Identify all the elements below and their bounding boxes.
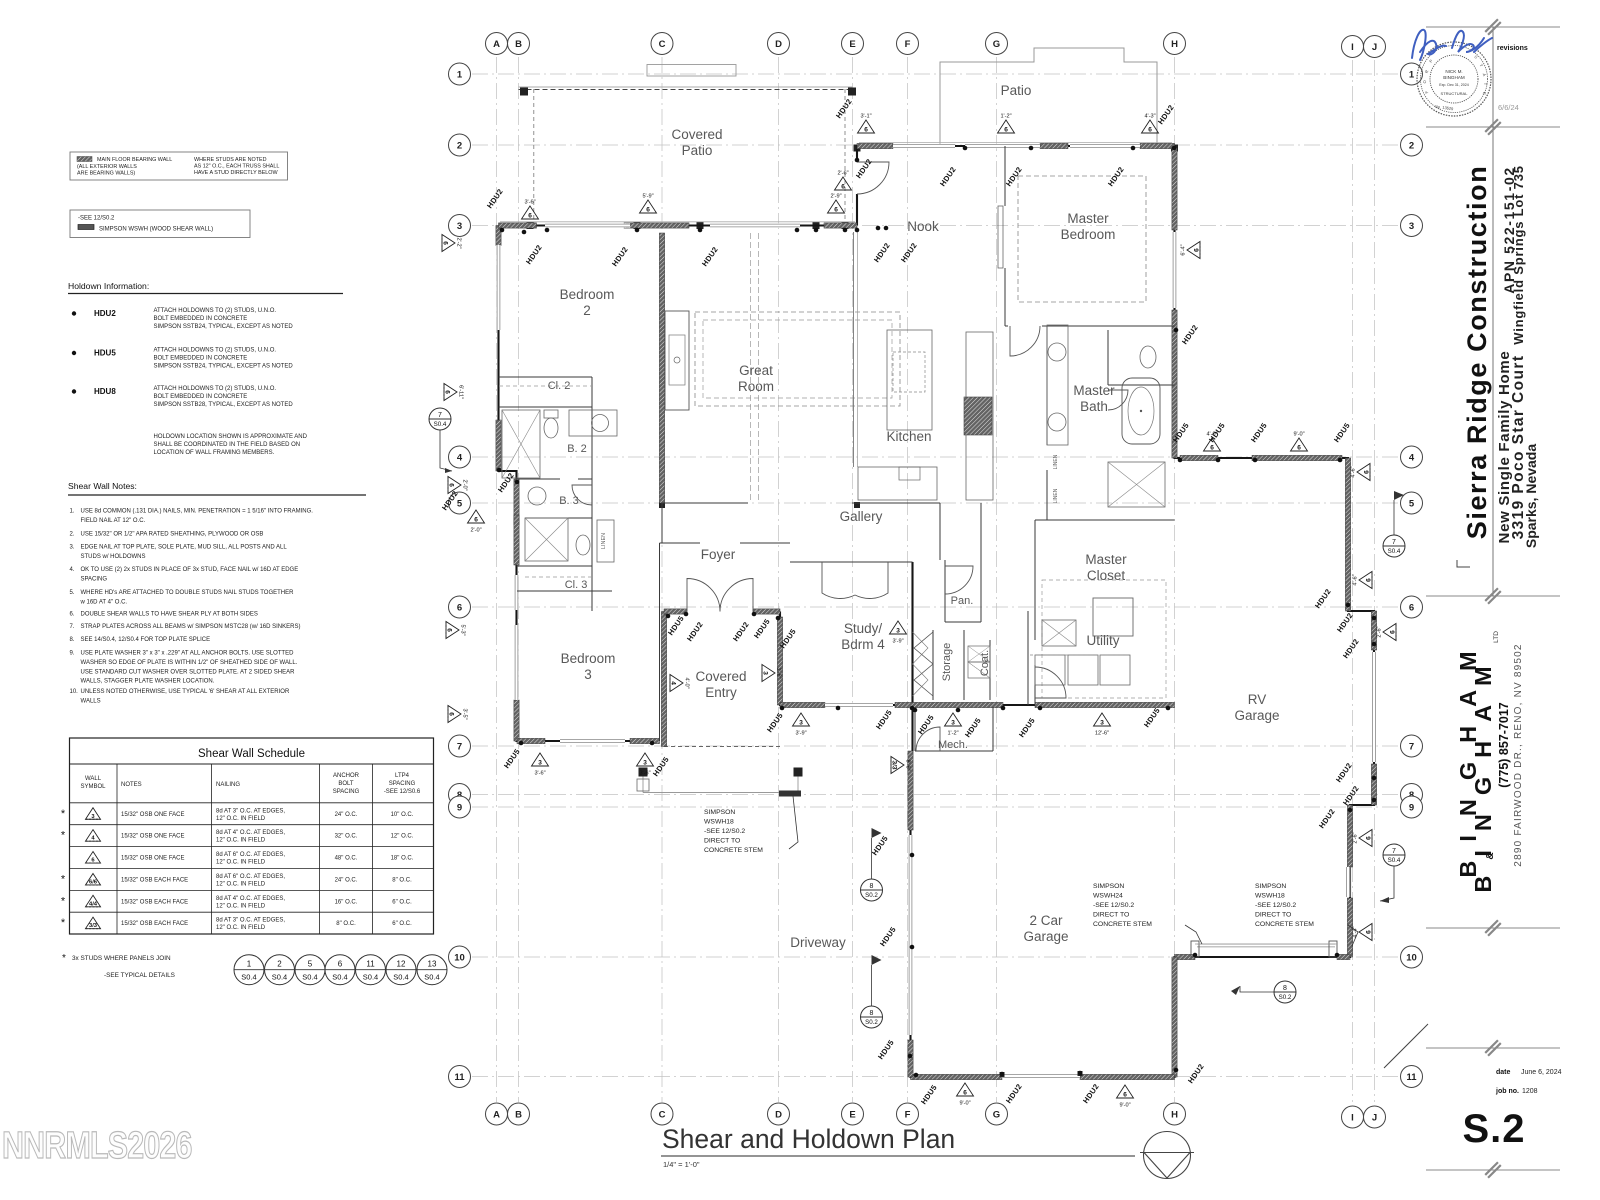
legend box bearing wall	[70, 152, 288, 180]
svg-text:D: D	[775, 39, 782, 50]
svg-text:CONCRETE STEM: CONCRETE STEM	[1093, 921, 1152, 928]
kitchen west counter	[853, 232, 855, 467]
svg-text:USE PLATE WASHER 3" x 3" x .22: USE PLATE WASHER 3" x 3" x .229" AT ALL …	[81, 651, 295, 657]
svg-text:9'-0": 9'-0"	[1293, 432, 1304, 438]
svg-text:48" O.C.: 48" O.C.	[335, 856, 358, 862]
svg-text:1208: 1208	[1522, 1088, 1538, 1095]
svg-text:6: 6	[446, 628, 453, 632]
svg-text:*: *	[61, 830, 66, 842]
svg-text:SIMPSON SSTB28, TYPICAL, EXCEP: SIMPSON SSTB28, TYPICAL, EXCEPT AS NOTED	[154, 402, 294, 408]
svg-text:3: 3	[799, 720, 803, 727]
master closet dashed shelving	[1042, 580, 1166, 698]
svg-text:15/32" OSB EACH FACE: 15/32" OSB EACH FACE	[121, 877, 188, 883]
svg-text:6: 6	[474, 517, 478, 524]
svg-text:Garage: Garage	[1234, 708, 1279, 723]
svg-text:15/32" OSB ONE FACE: 15/32" OSB ONE FACE	[121, 856, 185, 862]
svg-text:ARE BEARING WALLS): ARE BEARING WALLS)	[77, 171, 135, 177]
svg-text:J: J	[1372, 42, 1377, 53]
svg-text:S0.2: S0.2	[1279, 994, 1292, 1001]
svg-text:Shear Wall Schedule: Shear Wall Schedule	[198, 748, 305, 760]
svg-text:5.: 5.	[70, 590, 75, 596]
svg-text:G: G	[993, 1109, 1000, 1120]
svg-text:1: 1	[457, 69, 463, 80]
svg-text:F: F	[905, 1109, 911, 1120]
detail callouts	[429, 408, 451, 430]
svg-text:SHALL BE COORDINATED IN THE FI: SHALL BE COORDINATED IN THE FIELD BASED …	[154, 442, 301, 448]
svg-text:6.: 6.	[70, 612, 75, 618]
svg-text:USE 8d COMMON (.131 DIA.) NAIL: USE 8d COMMON (.131 DIA.) NAILS, MIN. PE…	[81, 509, 314, 515]
svg-text:6: 6	[442, 241, 449, 245]
svg-text:&: &	[1485, 852, 1496, 859]
svg-text:5: 5	[1409, 498, 1415, 509]
svg-text:9.: 9.	[70, 651, 75, 657]
svg-text:ANCHOR: ANCHOR	[333, 773, 360, 779]
svg-text:4.: 4.	[70, 567, 75, 573]
svg-text:1/4" = 1'-0": 1/4" = 1'-0"	[663, 1160, 700, 1169]
svg-text:LTD: LTD	[1493, 631, 1500, 643]
svg-text:S0.4: S0.4	[393, 973, 408, 982]
svg-text:Entry: Entry	[705, 685, 737, 700]
svg-text:Foyer: Foyer	[701, 547, 736, 562]
WC toilet	[1140, 346, 1156, 368]
svg-text:4: 4	[1409, 452, 1415, 463]
svg-text:SIMPSON: SIMPSON	[704, 809, 735, 816]
svg-text:2: 2	[277, 960, 282, 969]
svg-text:8'-6": 8'-6"	[905, 759, 911, 770]
svg-text:12" O.C.: 12" O.C.	[391, 834, 414, 840]
svg-text:2'-6": 2'-6"	[1377, 626, 1383, 637]
svg-text:6/6/24: 6/6/24	[1498, 103, 1519, 112]
svg-text:4'-3": 4'-3"	[1144, 114, 1155, 120]
svg-text:3'-6": 3'-6"	[524, 200, 535, 206]
svg-text:8: 8	[870, 883, 874, 890]
svg-text:revisions: revisions	[1497, 45, 1528, 52]
svg-text:6: 6	[1366, 930, 1373, 934]
svg-text:Driveway: Driveway	[790, 935, 846, 950]
svg-text:12" O.C. IN FIELD: 12" O.C. IN FIELD	[216, 838, 266, 844]
svg-text:13: 13	[428, 960, 437, 969]
svg-text:15/32" OSB ONE FACE: 15/32" OSB ONE FACE	[121, 812, 185, 818]
svg-text:SPACING: SPACING	[81, 576, 108, 582]
svg-text:3: 3	[951, 720, 955, 727]
svg-text:NICK M.: NICK M.	[1445, 69, 1462, 74]
holdown dots	[500, 228, 505, 233]
svg-text:AS 12" O.C., EACH TRUSS SHALL: AS 12" O.C., EACH TRUSS SHALL	[194, 164, 279, 170]
svg-text:2'-0": 2'-0"	[470, 528, 481, 534]
svg-text:Bedroom: Bedroom	[560, 287, 615, 302]
svg-text:3'-1": 3'-1"	[860, 114, 871, 120]
svg-text:Utility: Utility	[1087, 633, 1120, 648]
svg-text:BOLT: BOLT	[338, 781, 354, 787]
svg-text:2: 2	[457, 140, 462, 151]
svg-text:3: 3	[457, 221, 462, 232]
svg-text:3x STUDS WHERE PANELS JOIN: 3x STUDS WHERE PANELS JOIN	[72, 955, 171, 962]
Cl2 dashed shelf	[499, 385, 592, 387]
svg-text:8d AT 6" O.C. AT EDGES,: 8d AT 6" O.C. AT EDGES,	[216, 852, 285, 858]
svg-text:3.: 3.	[70, 545, 75, 551]
svg-text:2 Car: 2 Car	[1029, 913, 1063, 928]
svg-text:Kitchen: Kitchen	[886, 429, 931, 444]
svg-text:8: 8	[1283, 985, 1287, 992]
svg-text:J: J	[1372, 1112, 1377, 1123]
svg-text:NAILING: NAILING	[216, 782, 240, 788]
svg-text:4'-0": 4'-0"	[684, 677, 690, 688]
svg-text:1: 1	[247, 960, 252, 969]
svg-text:Covered: Covered	[695, 669, 746, 684]
svg-text:S0.4: S0.4	[363, 973, 378, 982]
patio slab top right	[940, 48, 1157, 146]
svg-text:Wingfield Springs Lot 735: Wingfield Springs Lot 735	[1511, 165, 1526, 345]
svg-text:HDU5: HDU5	[94, 349, 116, 358]
svg-text:12" O.C. IN FIELD: 12" O.C. IN FIELD	[216, 881, 266, 887]
svg-text:Master: Master	[1067, 211, 1109, 226]
master shower	[1108, 462, 1165, 507]
svg-text:S0.4: S0.4	[272, 973, 287, 982]
svg-text:6: 6	[1366, 578, 1373, 582]
svg-text:3: 3	[1100, 720, 1104, 727]
svg-text:Bedroom: Bedroom	[1061, 227, 1116, 242]
svg-text:NNRMLS2026: NNRMLS2026	[2, 1125, 192, 1167]
svg-text:S0.2: S0.2	[865, 1019, 878, 1026]
svg-text:18" O.C.: 18" O.C.	[391, 856, 414, 862]
svg-text:SPACING: SPACING	[333, 789, 360, 795]
grid column bubbles bottom	[486, 1103, 508, 1125]
svg-text:D: D	[775, 1109, 782, 1120]
svg-text:-SEE TYPICAL DETAILS: -SEE TYPICAL DETAILS	[104, 972, 175, 979]
great room ceiling dashed	[695, 312, 900, 406]
svg-text:BOLT EMBEDDED IN CONCRETE: BOLT EMBEDDED IN CONCRETE	[154, 394, 248, 400]
svg-text:2'-6": 2'-6"	[837, 171, 848, 177]
svg-text:8: 8	[870, 1010, 874, 1017]
svg-text:6" O.C.: 6" O.C.	[392, 921, 412, 927]
bath vanity + sinks	[1047, 325, 1068, 445]
svg-text:7: 7	[438, 412, 442, 419]
svg-text:6: 6	[1409, 602, 1414, 613]
kitchen wall cabinets	[966, 332, 993, 500]
svg-text:2: 2	[583, 303, 591, 318]
svg-text:WASHER SO EDGE OF PLATE IS WIT: WASHER SO EDGE OF PLATE IS WITHIN 1/2" O…	[81, 660, 298, 666]
svg-text:6: 6	[864, 127, 868, 134]
svg-text:6: 6	[834, 207, 838, 214]
svg-text:6: 6	[1148, 127, 1152, 134]
svg-text:CONCRETE STEM: CONCRETE STEM	[704, 847, 763, 854]
svg-text:BINGHAM: BINGHAM	[1443, 75, 1465, 80]
svg-text:7: 7	[457, 741, 462, 752]
svg-text:Master: Master	[1073, 383, 1115, 398]
title block borders	[1492, 27, 1494, 596]
svg-text:job no.: job no.	[1495, 1088, 1519, 1095]
svg-text:S0.4: S0.4	[1388, 857, 1401, 864]
svg-text:8" O.C.: 8" O.C.	[392, 877, 412, 883]
svg-text:10.: 10.	[70, 689, 79, 695]
svg-text:-SEE 12/S0.2: -SEE 12/S0.2	[1093, 902, 1134, 909]
kitchen island	[887, 330, 932, 430]
svg-text:DIRECT TO: DIRECT TO	[1093, 912, 1129, 919]
B3 shower	[525, 518, 568, 561]
svg-text:12'-6": 12'-6"	[1095, 731, 1109, 737]
svg-text:Patio: Patio	[682, 143, 713, 158]
svg-text:SIMPSON: SIMPSON	[1093, 883, 1124, 890]
svg-text:1: 1	[1409, 69, 1415, 80]
svg-text:Mech.: Mech.	[938, 739, 968, 751]
svg-text:6: 6	[963, 1090, 967, 1097]
svg-text:4/4: 4/4	[89, 901, 98, 907]
svg-text:6: 6	[457, 602, 462, 613]
svg-text:6: 6	[448, 483, 455, 487]
svg-text:S0.4: S0.4	[424, 973, 439, 982]
svg-text:*: *	[61, 873, 66, 885]
svg-text:SIMPSON WSWH (WOOD SHEAR WALL): SIMPSON WSWH (WOOD SHEAR WALL)	[99, 227, 213, 233]
svg-text:3: 3	[538, 760, 542, 767]
svg-text:7: 7	[1392, 539, 1396, 546]
svg-text:Nook: Nook	[907, 219, 939, 234]
svg-text:I: I	[1351, 1112, 1354, 1123]
svg-text:15/32" OSB ONE FACE: 15/32" OSB ONE FACE	[121, 834, 185, 840]
svg-text:12" O.C. IN FIELD: 12" O.C. IN FIELD	[216, 816, 266, 822]
svg-text:June 6, 2024: June 6, 2024	[1521, 1069, 1562, 1076]
svg-text:Master: Master	[1085, 552, 1127, 567]
svg-text:6: 6	[448, 712, 455, 716]
svg-text:ATTACH HOLDOWNS TO (2) STUDS,: ATTACH HOLDOWNS TO (2) STUDS, U.N.O.	[154, 308, 277, 314]
svg-text:2'-9": 2'-9"	[830, 194, 841, 200]
svg-text:Coat.: Coat.	[979, 650, 991, 676]
svg-text:SIMPSON SSTB24, TYPICAL, EXCEP: SIMPSON SSTB24, TYPICAL, EXCEPT AS NOTED	[154, 364, 294, 370]
svg-text:6: 6	[1390, 630, 1397, 634]
svg-text:6: 6	[1297, 445, 1301, 452]
svg-text:Exp. Dec 31, 2024: Exp. Dec 31, 2024	[1439, 83, 1469, 87]
svg-text:12" O.C. IN FIELD: 12" O.C. IN FIELD	[216, 925, 266, 931]
svg-text:(ALL EXTERIOR WALLS: (ALL EXTERIOR WALLS	[77, 164, 137, 170]
legend box shear wall	[70, 210, 250, 238]
svg-text:4: 4	[670, 681, 677, 685]
svg-text:-SEE 12/S0.6: -SEE 12/S0.6	[384, 789, 421, 795]
svg-text:*: *	[61, 917, 66, 929]
svg-text:B: B	[515, 1109, 522, 1120]
svg-text:6: 6	[1004, 127, 1008, 134]
svg-text:4'-0": 4'-0"	[1206, 432, 1217, 438]
svg-text:STRUCTURAL: STRUCTURAL	[1441, 91, 1469, 96]
svg-text:Patio: Patio	[1001, 83, 1032, 98]
diagonal break line	[1384, 1024, 1428, 1068]
svg-text:4'-6": 4'-6"	[1351, 466, 1357, 477]
svg-text:SPACING: SPACING	[389, 781, 416, 787]
svg-text:OK TO USE (2) 2x STUDS IN PLAC: OK TO USE (2) 2x STUDS IN PLACE OF 3x ST…	[81, 567, 299, 573]
svg-text:LINEN: LINEN	[1053, 454, 1059, 469]
master window seat	[998, 206, 1003, 268]
HDU5 note	[72, 351, 76, 355]
svg-text:S0.2: S0.2	[865, 892, 878, 899]
beam dashes	[750, 233, 752, 503]
grid row bubbles left	[449, 63, 471, 85]
svg-text:FIELD NAIL AT 12" O.C.: FIELD NAIL AT 12" O.C.	[81, 518, 146, 524]
svg-text:24" O.C.: 24" O.C.	[335, 877, 358, 883]
svg-text:SYMBOL: SYMBOL	[80, 784, 106, 790]
svg-text:12: 12	[397, 960, 406, 969]
covered patio dashed outline	[519, 86, 853, 88]
svg-text:2890 FAIRWOOD DR., RENO, N: 2890 FAIRWOOD DR., RENO, NV 89502	[1513, 643, 1524, 866]
svg-text:HAVE A STUD DIRECTLY BELOW: HAVE A STUD DIRECTLY BELOW	[194, 170, 278, 176]
svg-text:6: 6	[1366, 836, 1373, 840]
svg-text:15/32" OSB EACH FACE: 15/32" OSB EACH FACE	[121, 921, 188, 927]
svg-text:3: 3	[1409, 221, 1414, 232]
svg-text:2'-0": 2'-0"	[462, 479, 468, 490]
svg-text:SEE 14/S0.4, 12/S0.4 FOR TOP P: SEE 14/S0.4, 12/S0.4 FOR TOP PLATE SPLIC…	[81, 637, 211, 643]
door arcs	[572, 162, 1128, 751]
svg-text:F: F	[905, 39, 911, 50]
great room fireplace	[665, 311, 689, 410]
svg-text:1'-2": 1'-2"	[1000, 114, 1011, 120]
svg-text:Closet: Closet	[1087, 568, 1126, 583]
svg-text:STUDS w/ HOLDOWNS: STUDS w/ HOLDOWNS	[81, 554, 146, 560]
svg-text:E: E	[849, 1109, 855, 1120]
shear walls (hatched)	[496, 226, 501, 246]
svg-text:8d AT 6" O.C. AT EDGES,: 8d AT 6" O.C. AT EDGES,	[216, 874, 285, 880]
svg-text:6/6: 6/6	[89, 879, 98, 885]
svg-text:2: 2	[1409, 140, 1414, 151]
svg-text:8d AT 3" O.C. AT EDGES,: 8d AT 3" O.C. AT EDGES,	[216, 808, 285, 814]
svg-text:LOCATION OF WALL FRAMING MEMBE: LOCATION OF WALL FRAMING MEMBERS.	[154, 450, 275, 456]
svg-text:3: 3	[896, 628, 900, 635]
svg-text:Covered: Covered	[671, 127, 722, 142]
svg-text:LTP4: LTP4	[395, 773, 410, 779]
svg-text:Cl. 3: Cl. 3	[565, 579, 588, 591]
interior partitions	[499, 146, 1175, 751]
svg-text:Study/: Study/	[844, 621, 883, 636]
svg-text:date: date	[1496, 1069, 1511, 1076]
svg-text:3'-6": 3'-6"	[639, 771, 650, 777]
grid row bubbles right	[1401, 63, 1423, 85]
svg-text:3/3: 3/3	[891, 760, 898, 769]
svg-text:H: H	[1171, 39, 1178, 50]
svg-text:(775) 857-7017: (775) 857-7017	[1497, 702, 1511, 788]
svg-text:ATTACH HOLDOWNS TO (2) STUDS,: ATTACH HOLDOWNS TO (2) STUDS, U.N.O.	[154, 348, 277, 354]
svg-text:A: A	[493, 39, 500, 50]
B2 vanity	[569, 410, 617, 436]
svg-text:Storage: Storage	[941, 643, 953, 682]
svg-text:10: 10	[454, 952, 465, 963]
windows	[545, 223, 630, 228]
svg-text:9'-0": 9'-0"	[959, 1101, 970, 1107]
svg-text:5: 5	[308, 960, 313, 969]
svg-text:UNLESS NOTED OTHERWISE, USE TY: UNLESS NOTED OTHERWISE, USE TYPICAL '6' …	[81, 689, 290, 695]
kitchen south counter	[858, 467, 937, 500]
svg-text:9: 9	[1409, 802, 1414, 813]
exterior walls	[499, 146, 1375, 1077]
B2 toilet	[544, 418, 558, 438]
svg-text:WHERE STUDS ARE NOTED: WHERE STUDS ARE NOTED	[194, 157, 267, 163]
svg-text:EDGE NAIL AT TOP PLATE, SOLE P: EDGE NAIL AT TOP PLATE, SOLE PLATE, MUD …	[81, 545, 288, 551]
svg-text:Bedroom: Bedroom	[561, 651, 616, 666]
svg-text:RV: RV	[1248, 692, 1267, 707]
svg-text:7: 7	[1392, 848, 1396, 855]
svg-text:3'-6": 3'-6"	[534, 771, 545, 777]
svg-text:Bdrm 4: Bdrm 4	[841, 637, 885, 652]
svg-text:WSWH24: WSWH24	[1093, 893, 1123, 900]
svg-text:Cl. 2: Cl. 2	[548, 380, 571, 392]
svg-text:Room: Room	[738, 379, 774, 394]
svg-text:3'-5": 3'-5"	[462, 708, 468, 719]
svg-text:Shear Wall Notes:: Shear Wall Notes:	[68, 481, 137, 491]
svg-text:4'-6": 4'-6"	[1353, 574, 1359, 585]
HDU2 note	[72, 311, 76, 315]
HDU8 note	[72, 389, 76, 393]
svg-text:DIRECT TO: DIRECT TO	[1255, 912, 1291, 919]
svg-text:3: 3	[643, 760, 647, 767]
utility hatch box	[1042, 620, 1076, 646]
svg-text:8" O.C.: 8" O.C.	[336, 921, 356, 927]
RV garage door	[1197, 943, 1335, 948]
svg-text:Sierra Ridge Construction: Sierra Ridge Construction	[1462, 165, 1492, 540]
svg-text:8d AT 4" O.C. AT EDGES,: 8d AT 4" O.C. AT EDGES,	[216, 896, 285, 902]
grid column bubbles top	[486, 33, 508, 55]
svg-text:16" O.C.: 16" O.C.	[335, 899, 358, 905]
svg-text:LINEN: LINEN	[1053, 488, 1059, 503]
svg-text:6: 6	[528, 213, 532, 220]
svg-text:S0.4: S0.4	[1388, 548, 1401, 555]
svg-text:w 16D AT 4" O.C.: w 16D AT 4" O.C.	[80, 599, 128, 605]
svg-text:11: 11	[454, 1072, 465, 1083]
svg-text:*: *	[61, 895, 66, 907]
svg-text:Great: Great	[739, 363, 773, 378]
svg-text:15/32" OSB EACH FACE: 15/32" OSB EACH FACE	[121, 899, 188, 905]
svg-text:O: O	[1422, 80, 1427, 84]
svg-text:C: C	[659, 1109, 666, 1120]
svg-text:12" O.C. IN FIELD: 12" O.C. IN FIELD	[216, 860, 266, 866]
svg-text:9'-0": 9'-0"	[1119, 1103, 1130, 1109]
svg-text:B. 3: B. 3	[559, 495, 579, 507]
svg-text:STRAP PLATES ACROSS ALL BEAMS: STRAP PLATES ACROSS ALL BEAMS w/ SIMPSON…	[81, 624, 301, 630]
svg-text:C: C	[659, 39, 666, 50]
svg-text:10: 10	[1406, 952, 1417, 963]
svg-text:HOLDOWN LOCATION SHOWN IS APPR: HOLDOWN LOCATION SHOWN IS APPROXIMATE AN…	[154, 434, 308, 440]
svg-text:1.: 1.	[70, 509, 75, 515]
svg-text:1'-6": 1'-6"	[776, 667, 782, 678]
svg-text:6" O.C.: 6" O.C.	[392, 899, 412, 905]
svg-text:8d AT 3" O.C. AT EDGES,: 8d AT 3" O.C. AT EDGES,	[216, 918, 285, 924]
utility washer dryer	[1035, 655, 1065, 685]
master bedroom ceiling dashed	[1018, 176, 1146, 302]
garage door	[1002, 1074, 1080, 1079]
svg-text:6'-11": 6'-11"	[458, 385, 464, 399]
svg-text:WALLS, STAGGER PLATE WASHER LO: WALLS, STAGGER PLATE WASHER LOCATION.	[81, 679, 215, 685]
svg-text:USE STANDARD CUT WASHER OVER S: USE STANDARD CUT WASHER OVER SLOTTED PLA…	[81, 669, 296, 675]
svg-text:12" O.C. IN FIELD: 12" O.C. IN FIELD	[216, 903, 266, 909]
svg-text:10" O.C.: 10" O.C.	[391, 812, 414, 818]
svg-text:B. 2: B. 2	[567, 443, 587, 455]
B3 toilet/sink	[576, 535, 590, 555]
covered patio bbq counter	[647, 65, 736, 77]
svg-text:4: 4	[457, 452, 463, 463]
tub	[1122, 378, 1160, 444]
svg-text:Pan.: Pan.	[951, 595, 974, 607]
svg-text:3/3: 3/3	[89, 923, 98, 929]
svg-text:3'-9": 3'-9"	[795, 731, 806, 737]
svg-text:2'-6": 2'-6"	[1353, 832, 1359, 843]
shear wall triangles	[522, 200, 539, 220]
svg-text:6: 6	[1210, 445, 1214, 452]
svg-text:6: 6	[1123, 1092, 1127, 1099]
svg-text:6: 6	[1194, 248, 1201, 252]
svg-text:G: G	[993, 39, 1000, 50]
svg-text:5: 5	[457, 498, 463, 509]
front porch slab	[664, 746, 780, 748]
svg-text:6: 6	[841, 184, 845, 191]
svg-text:Shear and Holdown Plan: Shear and Holdown Plan	[662, 1124, 955, 1154]
shear wall schedule table	[70, 738, 434, 934]
north arrow	[1140, 1132, 1194, 1179]
svg-text:Bath: Bath	[1080, 399, 1108, 414]
svg-text:2.: 2.	[70, 532, 75, 538]
